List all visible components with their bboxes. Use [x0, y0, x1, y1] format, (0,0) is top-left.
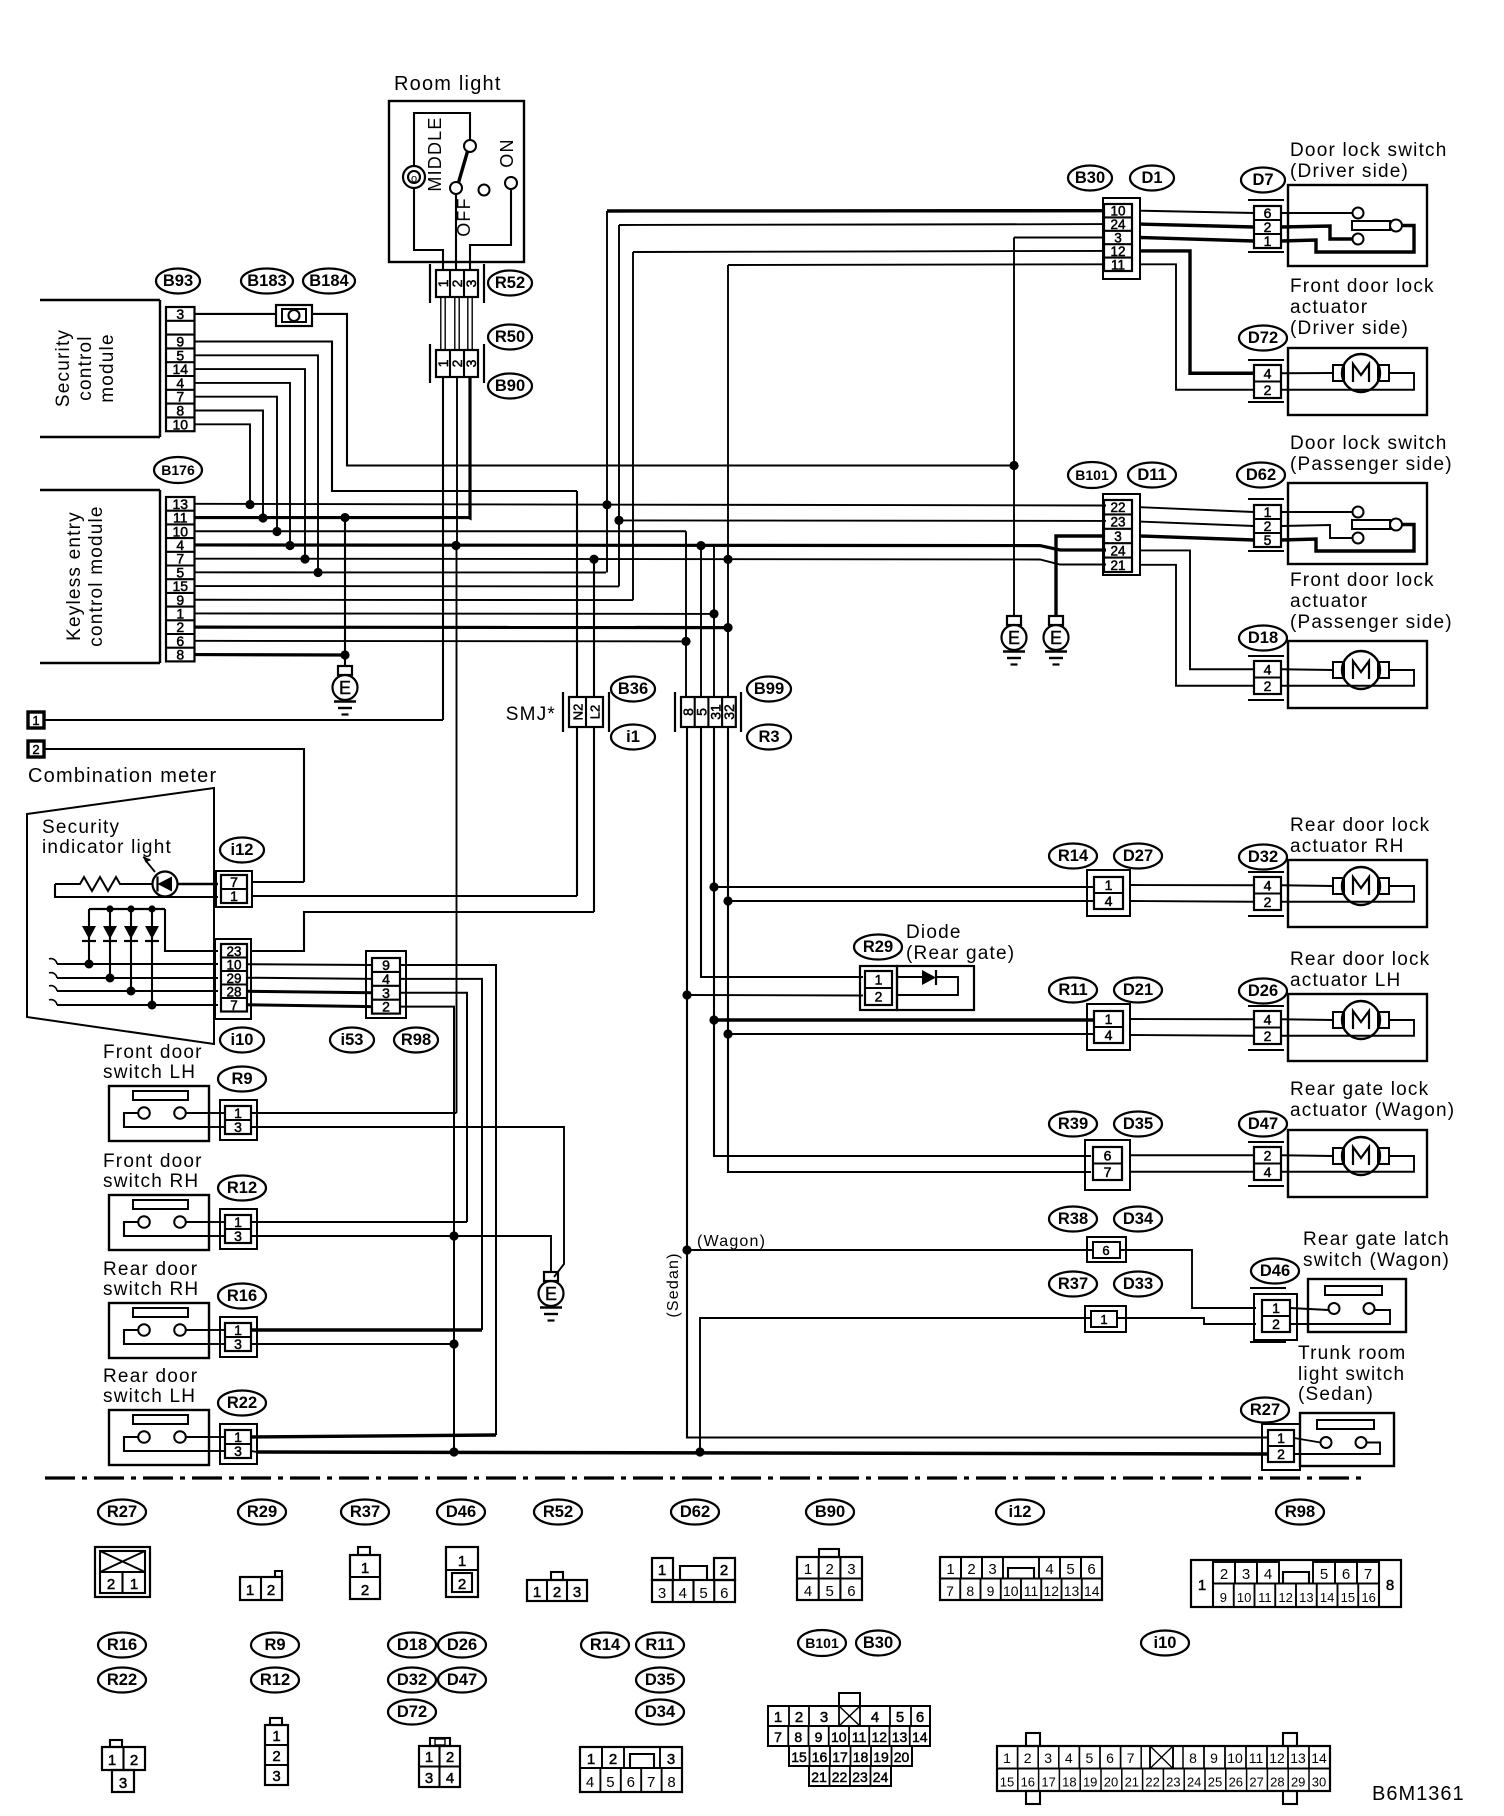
svg-text:2: 2: [361, 1582, 369, 1599]
ground bus wire to R27 pin2: [257, 1452, 1268, 1454]
svg-text:21: 21: [1125, 1775, 1139, 1790]
svg-text:4: 4: [804, 1583, 812, 1600]
connector D46 label oval: [1251, 1259, 1299, 1284]
svg-text:10: 10: [831, 1729, 847, 1745]
connector D21 label oval: [1114, 978, 1162, 1003]
svg-text:actuator: actuator: [1290, 591, 1368, 612]
wire B176 pin7 to B101 pin21: [195, 559, 1106, 565]
svg-text:switch RH: switch RH: [103, 1279, 199, 1300]
svg-text:2: 2: [720, 1562, 728, 1579]
wire B176 pin4 to B101 pin24: [195, 545, 1106, 550]
svg-text:D47: D47: [447, 1671, 477, 1689]
wire B93 pin9 to SMJ N2: [195, 342, 577, 492]
pinout B101 label oval: [798, 1630, 846, 1656]
pinout D46: [446, 1547, 478, 1597]
svg-text:18: 18: [1062, 1775, 1076, 1790]
pinout D62 label oval: [671, 1500, 719, 1525]
ground E B101 pin3: [1049, 616, 1063, 625]
svg-text:2: 2: [107, 1576, 115, 1593]
svg-text:17: 17: [1041, 1775, 1055, 1790]
connector R16 label oval: [218, 1284, 266, 1309]
svg-text:5: 5: [1066, 1561, 1074, 1578]
wires B30 to D7: [1140, 211, 1254, 213]
meter wire lower loop: [55, 884, 218, 897]
room light box: [389, 101, 524, 262]
svg-text:Front door: Front door: [103, 1042, 203, 1063]
svg-text:25: 25: [1208, 1775, 1222, 1790]
svg-text:R52: R52: [543, 1503, 573, 1521]
svg-text:Rear door lock: Rear door lock: [1290, 949, 1430, 970]
svg-text:12: 12: [1278, 1590, 1292, 1605]
svg-text:Trunk room: Trunk room: [1298, 1343, 1406, 1364]
wire B176 pin10 down at x686: [195, 530, 686, 532]
wire i12 pin7 right to node2 wire: [252, 881, 304, 883]
svg-text:14: 14: [1320, 1590, 1334, 1605]
node 2 box: [28, 741, 44, 757]
wire B176 pin9 from B30 pin12: [195, 599, 633, 601]
svg-text:R14: R14: [590, 1636, 621, 1654]
svg-text:ON: ON: [497, 138, 517, 167]
svg-text:4: 4: [446, 1770, 454, 1787]
svg-text:D27: D27: [1123, 847, 1153, 865]
room light ON wire to R52 pin3: [470, 189, 511, 270]
wire i53 pin3 to R12 pin1: [400, 993, 467, 1222]
svg-text:Rear door: Rear door: [103, 1259, 198, 1280]
connector D62: [1248, 498, 1284, 500]
svg-text:5: 5: [606, 1774, 614, 1791]
svg-text:13: 13: [1290, 1750, 1306, 1766]
svg-text:2: 2: [458, 1576, 466, 1593]
door switch box R22: [109, 1410, 209, 1465]
wire node2 to i12 pin7: [44, 749, 304, 882]
connector D62 label oval: [1237, 463, 1285, 488]
connector i10: [215, 939, 251, 1019]
svg-text:16: 16: [1361, 1590, 1375, 1605]
svg-text:3: 3: [1114, 529, 1122, 544]
rear gate latch switch box: [1308, 1279, 1406, 1332]
svg-text:6: 6: [1342, 1566, 1350, 1583]
motor return wire passenger: [1281, 670, 1414, 686]
svg-text:3: 3: [234, 1443, 242, 1459]
svg-text:3: 3: [820, 1709, 828, 1726]
svg-text:3: 3: [658, 1585, 666, 1602]
svg-text:32: 32: [721, 704, 737, 720]
svg-text:2: 2: [967, 1561, 975, 1578]
svg-text:10: 10: [1237, 1590, 1251, 1605]
pinout R27 label oval: [98, 1500, 146, 1525]
svg-text:4: 4: [1264, 1566, 1272, 1583]
connector R12: [220, 1209, 257, 1249]
svg-text:22: 22: [1145, 1775, 1159, 1790]
wire i53 pin2 ground bus: [400, 1007, 454, 1452]
svg-text:(Wagon): (Wagon): [697, 1233, 766, 1250]
connector D72: [1248, 359, 1284, 361]
svg-text:R12: R12: [227, 1179, 257, 1197]
connector R37 label oval: [1049, 1272, 1097, 1297]
svg-text:i12: i12: [1009, 1503, 1032, 1521]
svg-text:2: 2: [795, 1709, 803, 1726]
connector D7: [1248, 199, 1284, 201]
svg-text:5: 5: [896, 1709, 904, 1726]
svg-text:1: 1: [533, 1584, 541, 1601]
wire B176 pin6 to B99 pin8: [195, 640, 686, 643]
svg-text:11: 11: [852, 1729, 867, 1745]
noise suppressor B183 B184: [241, 269, 293, 294]
connector R9: [220, 1100, 257, 1140]
svg-text:1: 1: [587, 1751, 595, 1768]
svg-text:7: 7: [1364, 1566, 1372, 1583]
svg-text:4: 4: [1065, 1750, 1073, 1766]
door lock switch internals passenger: [1281, 511, 1352, 513]
pinout B30 label oval: [856, 1631, 900, 1656]
svg-text:R12: R12: [260, 1671, 290, 1689]
svg-text:D18: D18: [1248, 629, 1278, 647]
connector B90 label oval: [488, 374, 532, 399]
pinout i12: [940, 1557, 1102, 1600]
svg-text:1: 1: [1105, 877, 1113, 893]
door lock switch internals driver: [1281, 212, 1352, 214]
svg-text:2: 2: [826, 1561, 834, 1578]
connector R22: [220, 1424, 257, 1464]
connector B30 label oval: [1068, 166, 1112, 191]
connector B99 R3: [674, 692, 676, 732]
connector D11 label oval: [1128, 463, 1176, 488]
svg-text:(Passenger side): (Passenger side): [1290, 612, 1453, 633]
connector D32 label oval: [1239, 845, 1287, 870]
svg-text:E: E: [339, 678, 351, 698]
svg-text:3: 3: [234, 1336, 242, 1352]
svg-text:13: 13: [892, 1729, 908, 1745]
svg-text:switch LH: switch LH: [103, 1062, 196, 1083]
svg-text:16: 16: [1021, 1775, 1035, 1790]
wire to R11 pin4: [728, 1033, 1094, 1035]
wire R37 pin1 to D46 pin2: [1117, 1318, 1256, 1324]
connector B30 D1: [1103, 198, 1140, 279]
door switch box R12: [109, 1195, 209, 1250]
svg-text:(Rear gate): (Rear gate): [906, 943, 1015, 964]
wire R12 pin3 to ground: [251, 1236, 551, 1272]
wire R9 pin1 up: [251, 1112, 457, 1114]
wire diode bus to i10 pin23: [165, 909, 218, 951]
connector R11 label oval: [1049, 978, 1097, 1003]
pinout R16 R22 connector: [102, 1747, 145, 1770]
svg-text:Security: Security: [42, 817, 120, 838]
connector D34 label oval: [1114, 1207, 1162, 1232]
pinout B90: [797, 1557, 862, 1600]
svg-text:R29: R29: [247, 1503, 277, 1521]
svg-text:B30: B30: [1075, 169, 1105, 187]
svg-text:D26: D26: [447, 1636, 477, 1654]
svg-text:1: 1: [658, 1562, 666, 1579]
wire B90 pin1 down to node1: [442, 377, 444, 720]
svg-text:3: 3: [1242, 1566, 1250, 1583]
svg-text:1: 1: [458, 1553, 466, 1570]
wire B176 pin13 to B101 pin22: [195, 504, 1106, 506]
svg-text:R39: R39: [1058, 1115, 1088, 1133]
wires R52 to B90: [440, 297, 442, 350]
door lock switch box driver: [1288, 185, 1427, 266]
svg-text:4: 4: [1264, 1164, 1272, 1180]
svg-text:1: 1: [130, 1576, 138, 1593]
wire B99 pin8 vertical: [685, 531, 687, 697]
wire B93 pin7 down: [195, 397, 277, 532]
svg-text:3: 3: [1044, 1750, 1052, 1766]
svg-text:indicator light: indicator light: [42, 837, 172, 858]
svg-text:27: 27: [1249, 1775, 1263, 1790]
svg-text:SMJ*: SMJ*: [506, 704, 556, 725]
svg-text:1: 1: [1277, 1430, 1285, 1446]
connector D32: [1248, 871, 1284, 873]
svg-text:11: 11: [1258, 1590, 1272, 1605]
svg-text:switch LH: switch LH: [103, 1386, 196, 1407]
svg-text:6: 6: [1106, 1750, 1114, 1766]
svg-text:D32: D32: [1248, 848, 1278, 866]
svg-text:5: 5: [826, 1583, 834, 1600]
connector B99 label oval: [747, 677, 791, 702]
svg-text:3: 3: [667, 1751, 675, 1768]
svg-text:B183: B183: [247, 272, 286, 290]
wire B176 pin11 to room light: [195, 516, 469, 519]
svg-text:3: 3: [988, 1561, 996, 1578]
svg-text:16: 16: [812, 1749, 828, 1765]
svg-text:19: 19: [1083, 1775, 1097, 1790]
pinout R52 label oval: [534, 1500, 582, 1525]
wire B30 pin10 left: [607, 209, 1104, 213]
connector i12: [216, 871, 252, 907]
diode R29 connector: [860, 966, 897, 1010]
svg-text:8: 8: [667, 1774, 675, 1791]
svg-text:2: 2: [130, 1752, 138, 1769]
svg-text:8: 8: [176, 647, 184, 663]
svg-text:6: 6: [1087, 1561, 1095, 1578]
svg-text:7: 7: [946, 1583, 954, 1599]
svg-text:15: 15: [1341, 1590, 1355, 1605]
wires R14 to D32: [1130, 884, 1254, 886]
connector D1 label oval: [1130, 166, 1174, 191]
room lamp: [403, 166, 425, 188]
pinout R37 label oval: [341, 1500, 389, 1525]
svg-text:R37: R37: [1058, 1275, 1088, 1293]
svg-text:B36: B36: [618, 680, 648, 698]
svg-text:2: 2: [1264, 1147, 1272, 1163]
diode bus combination meter: [89, 908, 165, 910]
svg-text:B176: B176: [161, 462, 195, 478]
pinout R9 label oval: [251, 1633, 299, 1658]
svg-text:i10: i10: [1154, 1634, 1177, 1652]
svg-text:10: 10: [172, 416, 188, 432]
svg-text:R22: R22: [107, 1671, 137, 1689]
svg-text:D62: D62: [1246, 466, 1276, 484]
svg-text:R11: R11: [645, 1636, 674, 1654]
room light internal wires: [414, 113, 470, 166]
svg-text:i1: i1: [626, 728, 640, 746]
wire R37 pin1 left to ground bus: [700, 1318, 1091, 1452]
wire SMJ L2 vertical: [593, 559, 595, 697]
trunk switch box: [1300, 1413, 1394, 1466]
wires i10 to i53: [247, 963, 372, 966]
wire B176 pin2 to B99 pin32: [195, 626, 728, 630]
svg-text:21: 21: [811, 1769, 827, 1785]
wire i53 pin9 to R22 pin1: [400, 965, 496, 1435]
svg-text:1: 1: [1198, 1577, 1206, 1594]
svg-text:6: 6: [916, 1709, 924, 1726]
svg-text:2: 2: [1024, 1750, 1032, 1766]
connector R39 D35: [1085, 1140, 1130, 1190]
pinout R98 label oval: [1276, 1500, 1324, 1525]
meter coil wires: [57, 963, 218, 965]
pinout R16 label oval: [98, 1633, 146, 1658]
svg-text:23: 23: [1110, 515, 1125, 530]
wire B30 pin24 left: [619, 223, 1104, 226]
svg-text:D72: D72: [1248, 329, 1278, 347]
svg-text:R98: R98: [1285, 1503, 1315, 1521]
svg-text:5: 5: [1264, 532, 1272, 548]
svg-text:Security: Security: [53, 329, 74, 407]
svg-text:17: 17: [832, 1749, 848, 1765]
pinout i10 label oval: [1141, 1631, 1189, 1656]
svg-text:3: 3: [234, 1228, 242, 1244]
svg-text:2: 2: [1264, 678, 1272, 694]
svg-text:6: 6: [1102, 1243, 1109, 1258]
svg-text:R27: R27: [107, 1503, 137, 1521]
svg-text:10: 10: [1227, 1750, 1243, 1766]
connector R39 label oval: [1049, 1112, 1097, 1137]
wire B101 pin23 wire: [619, 519, 1106, 522]
svg-text:11: 11: [1111, 257, 1125, 272]
svg-text:3: 3: [463, 359, 479, 367]
svg-text:2: 2: [609, 1751, 617, 1768]
svg-text:i10: i10: [231, 1031, 254, 1049]
svg-text:D46: D46: [1260, 1262, 1290, 1280]
wire B176 pin5 from B30 pin10: [195, 571, 606, 573]
svg-text:15: 15: [1000, 1775, 1014, 1790]
motor M passenger actuator: [1281, 668, 1333, 671]
connector R11 D21: [1087, 1004, 1130, 1050]
wire R22 pin1 up: [251, 1435, 496, 1437]
svg-text:(Sedan): (Sedan): [665, 1252, 682, 1317]
wire B30 pin11 left: [728, 263, 1104, 266]
pinout R29 label oval: [238, 1500, 286, 1525]
pinout R14 family connector: [580, 1747, 682, 1792]
connector D7 label oval: [1241, 168, 1285, 193]
svg-text:R38: R38: [1058, 1210, 1088, 1228]
svg-text:9: 9: [815, 1729, 823, 1745]
svg-text:4: 4: [679, 1585, 687, 1602]
svg-text:Rear gate latch: Rear gate latch: [1303, 1229, 1450, 1250]
wire B90 pin2 down to R9 pin1: [456, 377, 458, 546]
svg-text:actuator: actuator: [1290, 297, 1368, 318]
svg-text:actuator RH: actuator RH: [1290, 836, 1405, 857]
ground E keyless module: [344, 518, 346, 666]
wire B93 pin14 down: [195, 369, 305, 559]
svg-text:1: 1: [875, 972, 883, 988]
connector R27 label oval: [1241, 1398, 1289, 1423]
wire B93 pin4 down: [195, 383, 290, 546]
svg-text:5: 5: [1320, 1566, 1328, 1583]
svg-text:Front door lock: Front door lock: [1290, 570, 1435, 591]
wire B99 pin32 vertical: [727, 265, 729, 697]
connector R27 main: [1262, 1424, 1300, 1470]
svg-text:D33: D33: [1123, 1275, 1153, 1293]
svg-text:7: 7: [647, 1774, 655, 1791]
svg-text:R52: R52: [495, 274, 525, 292]
wire B93 pin8 down: [195, 411, 263, 519]
svg-text:2: 2: [382, 999, 390, 1015]
svg-text:D46: D46: [446, 1503, 476, 1521]
svg-text:Door lock switch: Door lock switch: [1290, 433, 1448, 454]
connector D35 label oval: [1114, 1112, 1162, 1137]
ground E door switches: [544, 1272, 558, 1281]
wire B30 pin11 to D72 pin2: [1140, 264, 1254, 389]
svg-text:9: 9: [1210, 1750, 1218, 1766]
svg-text:12: 12: [1043, 1583, 1059, 1599]
svg-text:6: 6: [847, 1583, 855, 1600]
separator line: [45, 1476, 1365, 1479]
svg-text:1: 1: [774, 1709, 782, 1726]
room light switch blade: [464, 140, 476, 152]
svg-text:R9: R9: [264, 1636, 285, 1654]
pinout B90 label oval: [806, 1500, 854, 1525]
wire B30 pin3 to ground: [1014, 237, 1104, 239]
connector R14 D27: [1087, 870, 1130, 916]
pinout R52: [527, 1580, 587, 1601]
wire B30 pin12 left: [633, 251, 1104, 252]
svg-text:7: 7: [230, 998, 238, 1013]
svg-text:13: 13: [1064, 1583, 1080, 1599]
svg-text:4: 4: [1105, 893, 1113, 909]
pinout R11 label oval: [636, 1633, 684, 1658]
svg-text:30: 30: [1312, 1775, 1326, 1790]
wire B99 pin5 vertical: [700, 546, 702, 697]
motor M rear LH: [1281, 1018, 1333, 1021]
connector R22 label oval: [218, 1391, 266, 1416]
wire B30 pin12 vertical to B176 pin9: [632, 252, 634, 600]
connector B36 i1 SMJ: [562, 692, 564, 732]
svg-text:D32: D32: [397, 1671, 427, 1689]
svg-text:2: 2: [1220, 1566, 1228, 1583]
wire i10 pin23 to SMJ L2: [252, 912, 594, 951]
room light lamp wire to R52 pin1: [414, 188, 443, 270]
wire B30 pin24 vertical to B176 pin15: [618, 225, 620, 586]
svg-text:D47: D47: [1248, 1115, 1278, 1133]
connector i10 label oval: [220, 1028, 264, 1053]
motor return wire rear RH: [1281, 886, 1414, 902]
svg-text:B99: B99: [754, 680, 784, 698]
svg-text:3: 3: [176, 306, 184, 322]
connector B36 label oval: [611, 677, 655, 702]
svg-text:control module: control module: [86, 505, 107, 646]
svg-text:switch RH: switch RH: [103, 1171, 199, 1192]
wire R16 pin1 up: [251, 1328, 482, 1331]
svg-text:2: 2: [1264, 382, 1272, 398]
svg-text:o: o: [411, 173, 417, 185]
svg-text:20: 20: [1104, 1775, 1118, 1790]
svg-text:3: 3: [463, 279, 479, 287]
connector R29 label oval: [854, 935, 902, 960]
wire Wagon to R38 pin6: [687, 1249, 1093, 1251]
svg-text:1: 1: [108, 1752, 116, 1769]
connector B93: [166, 307, 195, 431]
connector R37 D33: [1085, 1306, 1126, 1332]
pinout R27: [95, 1547, 150, 1597]
motor M rear RH: [1281, 884, 1333, 887]
wire B101 pin24 to D18 pin4: [1140, 550, 1254, 669]
pinout D26 label oval: [438, 1633, 486, 1658]
svg-text:8: 8: [794, 1729, 802, 1745]
svg-text:D1: D1: [1141, 169, 1162, 187]
svg-text:9: 9: [987, 1583, 995, 1599]
svg-text:D21: D21: [1123, 981, 1153, 999]
